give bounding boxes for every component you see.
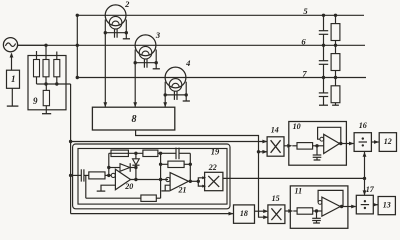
wire R10 to opamp bbox=[313, 145, 324, 147]
node column/amp-input junction bbox=[69, 174, 72, 177]
resistor R-f3 bbox=[168, 161, 184, 167]
label 4 bbox=[185, 58, 190, 68]
arrow into divider17 top bbox=[363, 190, 367, 195]
label 10 bbox=[293, 122, 301, 131]
wire signal to mixer 14 bbox=[71, 141, 267, 143]
wire AGC right riser bbox=[160, 180, 162, 199]
block 13 (indicator) bbox=[378, 197, 395, 215]
transducer 3 right leg bbox=[155, 50, 157, 63]
transducer 2 electrode dome bbox=[112, 21, 119, 25]
svg-text:20: 20 bbox=[124, 182, 133, 191]
wire 4 to ground bbox=[185, 95, 187, 101]
node junction R9c rail bbox=[55, 82, 58, 85]
resistor R11 bbox=[297, 208, 313, 214]
wire res upper lead bbox=[335, 15, 337, 23]
label 21 bbox=[178, 186, 187, 195]
resistor box bbox=[331, 86, 340, 103]
wire Rf3 to out column bbox=[184, 163, 190, 165]
wire cap lower lead bbox=[323, 97, 325, 106]
capacitor plates of 3 bbox=[144, 59, 147, 68]
node block8-line / mixer14 branch bbox=[257, 150, 260, 153]
label 9 bbox=[33, 96, 38, 106]
wire C10 to ground bbox=[316, 157, 318, 160]
wire 3 bottom bar bbox=[135, 62, 156, 64]
svg-text:10: 10 bbox=[293, 122, 301, 131]
transducer 2 left leg bbox=[104, 20, 106, 33]
wire opamp21 output bbox=[189, 180, 199, 182]
wire tap into block19 bbox=[71, 174, 82, 176]
resistor R9a bbox=[34, 60, 40, 77]
capacitor plates bbox=[319, 93, 328, 97]
wire opamp21 gnd stub bbox=[165, 185, 170, 191]
block 12 (indicator) bbox=[379, 133, 396, 152]
transducer 3 electrode dome bbox=[142, 51, 149, 55]
block 9 outline (resistor bank) bbox=[28, 56, 66, 110]
divide symbol in 17 bbox=[361, 200, 369, 209]
label 22 bbox=[208, 163, 217, 172]
opamp 20 inverting bubble bbox=[111, 173, 115, 177]
svg-text:18: 18 bbox=[240, 209, 248, 218]
label 20 bbox=[124, 182, 133, 191]
wire branch down to mixer15 bbox=[259, 152, 268, 217]
node diode branch tap bbox=[107, 166, 110, 169]
node filter10 RC bbox=[315, 144, 318, 147]
node junction bus2/riser bbox=[76, 44, 79, 47]
arrow into divider16 bottom bbox=[363, 152, 367, 157]
node cap tap bbox=[322, 76, 325, 79]
wire vertical bus riser bbox=[76, 15, 78, 77]
node output junction of opamp20 bbox=[134, 178, 137, 181]
wire transducer3 to block8 bbox=[134, 63, 136, 107]
wire R9c lead bbox=[56, 77, 58, 84]
wire filter11 input run bbox=[293, 210, 297, 212]
wire split to squarer upper bbox=[198, 178, 204, 182]
wire mixer14 to filter10 bbox=[284, 145, 290, 147]
transducer 3 inner electrode circle bbox=[139, 46, 152, 59]
wire filter10 input run bbox=[292, 145, 297, 147]
transducer 4 left leg bbox=[164, 82, 166, 95]
wire res upper lead bbox=[335, 78, 337, 86]
transducer 4 right leg bbox=[185, 82, 187, 95]
node filter11 RC bbox=[315, 209, 318, 212]
AC source G1 circle bbox=[3, 38, 17, 52]
transducer 2 right leg bbox=[125, 20, 127, 33]
AC source sine symbol bbox=[5, 43, 15, 46]
wire transducer2 to block8 bbox=[104, 33, 106, 107]
wire AGC feedback left riser bbox=[85, 175, 87, 198]
svg-text:8: 8 bbox=[132, 114, 137, 125]
node divider feed bbox=[363, 177, 366, 180]
node squarer split bbox=[197, 180, 200, 183]
svg-text:3: 3 bbox=[155, 30, 161, 40]
node column/mixer-wire junction bbox=[69, 140, 72, 143]
wire squarer output to dividers bbox=[223, 177, 365, 179]
block 18 (reference unit) bbox=[234, 205, 255, 223]
label 5 bbox=[303, 6, 308, 16]
arrow into block8 input1 bbox=[103, 102, 107, 107]
arrow into filter10 bbox=[287, 144, 292, 148]
wire cap upper lead bbox=[323, 45, 325, 60]
wire cap upper lead bbox=[323, 78, 325, 93]
node 4 bar left bbox=[164, 93, 167, 96]
ground of transducer 4 bbox=[183, 100, 190, 102]
label 18 bbox=[240, 209, 248, 218]
node 3 bar left bbox=[134, 61, 137, 64]
arrow mixer15 upper input bbox=[263, 209, 268, 213]
multiplier block 22 (squarer) bbox=[205, 172, 223, 190]
wire res lower lead bbox=[335, 71, 337, 78]
wire cap upper lead bbox=[323, 15, 325, 30]
wire C11 to ground bbox=[316, 221, 318, 223]
coupling capacitor C-in plates bbox=[81, 169, 84, 181]
svg-text:12: 12 bbox=[384, 137, 392, 146]
wire bottom feed to block 18 bbox=[71, 213, 233, 215]
wire amp21 output column bbox=[189, 153, 191, 181]
resistor R-f1 bbox=[111, 150, 128, 156]
node amp21 col bottom bbox=[159, 178, 162, 181]
X symbol in mixer 14 bbox=[271, 140, 281, 153]
wire opamp11 feedback bbox=[318, 190, 343, 206]
label 17 bbox=[366, 185, 375, 194]
wire box1 to G1 bbox=[11, 54, 13, 71]
diode D1 bbox=[120, 163, 130, 172]
node cap tap bbox=[322, 14, 325, 17]
node opamp10 output bbox=[339, 142, 342, 145]
resistor R9d bbox=[43, 90, 49, 105]
svg-text:22: 22 bbox=[208, 163, 217, 172]
svg-text:1: 1 bbox=[11, 74, 16, 84]
wire transducer4 to block8 bbox=[164, 95, 166, 107]
wire D1 to node C bbox=[130, 167, 136, 169]
wire tap stub right bbox=[56, 52, 58, 60]
wire amp21 input column bbox=[160, 153, 162, 179]
filter block 11 bbox=[290, 186, 348, 228]
node C bbox=[134, 166, 137, 169]
ground under box 1 bbox=[7, 105, 19, 107]
node opamp11 output bbox=[340, 205, 343, 208]
wire Cf to out column bbox=[179, 152, 190, 154]
svg-text:19: 19 bbox=[211, 146, 220, 156]
arrow into block 18 bbox=[229, 212, 234, 216]
ground of transducer 2 bbox=[123, 38, 130, 40]
label 3 bbox=[155, 30, 161, 40]
node cap tap bbox=[322, 44, 325, 47]
wire box1 to ground bbox=[11, 88, 13, 106]
capacitor plates of 4 bbox=[174, 91, 177, 100]
wire node C to output bbox=[135, 168, 137, 180]
terminal bar under resistor bbox=[332, 104, 339, 106]
wire D2 to node C bbox=[135, 165, 137, 167]
wire tap middle to bus bbox=[45, 45, 47, 59]
node amp21 col mid bbox=[159, 163, 162, 166]
op-amp U11 triangle bbox=[322, 197, 340, 216]
node res tap bbox=[334, 14, 337, 17]
wire block18 to mixer15 bbox=[255, 210, 267, 212]
wire box9 rail to column bbox=[70, 84, 72, 214]
svg-text:17: 17 bbox=[366, 185, 375, 194]
ground under box 9 bbox=[42, 113, 51, 115]
node opamp21 output bbox=[189, 180, 192, 183]
wire res feedback branch bbox=[161, 163, 168, 165]
wire R9a lead bbox=[36, 77, 38, 84]
wire C11 lead bbox=[316, 211, 318, 218]
resistor R-in of amp 20 bbox=[89, 172, 105, 179]
resistor box bbox=[331, 54, 340, 71]
svg-text:4: 4 bbox=[185, 58, 190, 68]
node junction bus2 tap bbox=[44, 44, 47, 47]
wire node B down bbox=[135, 153, 137, 159]
ground in filter 10 bbox=[314, 159, 321, 161]
wire diode branch bbox=[109, 167, 120, 169]
node res tap bbox=[334, 76, 337, 79]
arrow into block12 bbox=[374, 140, 379, 144]
label 6 bbox=[301, 36, 306, 46]
label 2 bbox=[124, 0, 130, 9]
label 8 bbox=[132, 114, 137, 125]
block 8 (switching unit) bbox=[92, 107, 174, 130]
op-amp U10 triangle bbox=[324, 134, 340, 153]
wire cap feedback branch bbox=[161, 152, 176, 154]
capacitor plates bbox=[319, 61, 328, 65]
block 19 outer frame bbox=[73, 144, 230, 209]
svg-text:14: 14 bbox=[271, 125, 279, 134]
node res tap bbox=[334, 44, 337, 47]
feedback capacitor C-f plates bbox=[176, 148, 179, 160]
wire cap lower lead bbox=[323, 64, 325, 77]
capacitive transducer 4 envelope circle bbox=[165, 67, 186, 88]
ground of opamp 21 bbox=[161, 190, 169, 192]
label 13 bbox=[383, 201, 391, 210]
op-amp 21 triangle bbox=[170, 173, 188, 191]
transducer 2 inner electrode circle bbox=[109, 16, 122, 29]
filter block 10 bbox=[289, 122, 347, 166]
wire R9d to ground bbox=[45, 106, 47, 114]
wire 2 bottom bar bbox=[105, 32, 126, 34]
node 4 bar right bbox=[185, 93, 188, 96]
wire C10 lead bbox=[316, 146, 318, 155]
wire 2 to ground bbox=[125, 33, 127, 39]
ground of transducer 3 bbox=[153, 68, 160, 70]
wire AGC feedback bottom run bbox=[86, 197, 141, 199]
capacitor C11 plates bbox=[312, 218, 321, 220]
arrow into block13 bbox=[373, 203, 378, 207]
block 1 (control unit) bbox=[7, 70, 20, 88]
node junction bus1/riser bbox=[76, 14, 79, 17]
wire mixer15 to filter11 bbox=[285, 210, 290, 212]
wire rail to R9d bbox=[45, 84, 47, 90]
label 15 bbox=[272, 194, 280, 203]
resistor R9c bbox=[54, 60, 60, 77]
svg-text:9: 9 bbox=[33, 96, 38, 106]
node junction bus3/riser bbox=[76, 76, 79, 79]
node opamp20 input bbox=[107, 174, 110, 177]
wire divider16 to block12 bbox=[371, 141, 378, 143]
arrow squarer upper input bbox=[202, 176, 206, 179]
label 16 bbox=[359, 121, 367, 130]
node 3 bar right bbox=[155, 61, 158, 64]
wire cap lower lead bbox=[323, 34, 325, 45]
capacitor plates of 2 bbox=[115, 29, 118, 38]
label 14 bbox=[271, 125, 279, 134]
capacitive transducer 2 envelope circle bbox=[105, 5, 126, 26]
arrow into divider16 bbox=[349, 142, 354, 146]
svg-text:11: 11 bbox=[295, 186, 303, 195]
wire opamp10 feedback bbox=[318, 127, 341, 143]
transducer 4 electrode dome bbox=[172, 83, 179, 87]
wire split to squarer lower bbox=[198, 181, 204, 186]
arrow into block8 input2 bbox=[133, 102, 137, 107]
divider block 16 bbox=[354, 133, 371, 152]
X symbol in mixer 15 bbox=[271, 208, 281, 220]
terminal bar under capacitor bbox=[319, 104, 328, 106]
wire res lower lead bbox=[335, 103, 337, 105]
resistor R-f2 (to amp21) bbox=[143, 150, 158, 156]
label 1 bbox=[11, 74, 16, 84]
wire top branch to amp21 node bbox=[158, 152, 161, 154]
wire Cin to Rin bbox=[84, 174, 89, 176]
resistor R10 bbox=[297, 143, 313, 150]
ground in filter 11 bbox=[313, 222, 320, 224]
wire bus line 6 (from AC source) bbox=[17, 44, 365, 46]
arrow into divider17 bbox=[351, 205, 356, 209]
resistor R-agc bbox=[141, 195, 156, 201]
wire res lower lead bbox=[335, 41, 337, 46]
wire feedback column A bbox=[108, 153, 110, 175]
block 19 inner frame bbox=[78, 149, 227, 205]
diode D2 (vertical) bbox=[132, 159, 139, 165]
node junction R9b rail bbox=[44, 82, 47, 85]
op-amp 20 triangle bbox=[115, 169, 130, 190]
node 2 bar right bbox=[125, 31, 128, 34]
mixer block 14 bbox=[267, 137, 284, 156]
wire Rin to opamp20 bbox=[105, 174, 111, 176]
wire bank common rail bbox=[37, 83, 71, 85]
arrow into G1 bbox=[10, 53, 14, 58]
wire branch to mixer14 lower input bbox=[259, 151, 267, 153]
mixer block 15 bbox=[268, 205, 285, 224]
label 11 bbox=[295, 186, 303, 195]
arrow into filter11 bbox=[288, 209, 293, 213]
wire top branch segment bbox=[109, 152, 143, 154]
arrow into block8 input3 bbox=[163, 102, 167, 107]
resistor R9b bbox=[43, 60, 49, 77]
capacitor plates bbox=[319, 31, 328, 35]
ground of opamp 20 bbox=[97, 190, 106, 192]
wire R11 to opamp bbox=[313, 210, 322, 212]
arrow squarer lower input bbox=[202, 185, 206, 188]
node B top branch bbox=[134, 152, 137, 155]
opamp10 bubble bbox=[320, 137, 324, 141]
wire G1 to bus bbox=[18, 44, 46, 46]
wire 3 to ground bbox=[155, 63, 157, 69]
arrow mixer15 lower input bbox=[263, 215, 268, 219]
transducer 4 inner electrode circle bbox=[169, 79, 182, 92]
wire R9b lead bbox=[45, 77, 47, 84]
wire 4 bottom bar bbox=[165, 94, 186, 96]
wire res upper lead bbox=[335, 45, 337, 53]
opamp 21 inverting bubble bbox=[166, 177, 170, 181]
arrow mixer14 lower input bbox=[262, 150, 267, 154]
transducer 3 left leg bbox=[134, 50, 136, 63]
wire filter10 output bbox=[340, 143, 354, 145]
svg-text:15: 15 bbox=[272, 194, 280, 203]
label 19 bbox=[211, 146, 220, 156]
wire divider column bbox=[364, 152, 366, 195]
wire opamp20 out to opamp21 in bbox=[131, 179, 169, 181]
node out column mid bbox=[189, 163, 192, 166]
divider block 17 bbox=[356, 195, 373, 214]
wire AGC bottom right bbox=[156, 197, 160, 199]
label 7 bbox=[302, 68, 307, 78]
svg-text:13: 13 bbox=[383, 201, 391, 210]
wire bus line 7 bbox=[77, 77, 366, 79]
wire divider17 to block13 bbox=[373, 204, 377, 206]
resistor box bbox=[331, 24, 340, 41]
svg-text:2: 2 bbox=[124, 0, 130, 9]
X symbol in block 22 bbox=[208, 176, 219, 187]
node amp21 col top bbox=[159, 152, 162, 155]
wire block8 output down bbox=[136, 130, 259, 152]
wire bus line 5 (top horizontal) bbox=[77, 14, 364, 16]
opamp11 bubble bbox=[318, 201, 322, 205]
wire opamp20 gnd stub bbox=[101, 185, 115, 191]
arrow mixer14 upper input bbox=[262, 140, 267, 144]
divide symbol in 16 bbox=[359, 137, 367, 146]
wire tap stub left bbox=[36, 51, 38, 60]
wire filter11 output bbox=[340, 206, 355, 208]
capacitive transducer 3 envelope circle bbox=[135, 35, 156, 56]
capacitor C10 plates bbox=[313, 155, 322, 157]
svg-text:21: 21 bbox=[178, 186, 187, 195]
label 12 bbox=[384, 137, 392, 146]
svg-text:16: 16 bbox=[359, 121, 367, 130]
node 2 bar left bbox=[104, 31, 107, 34]
